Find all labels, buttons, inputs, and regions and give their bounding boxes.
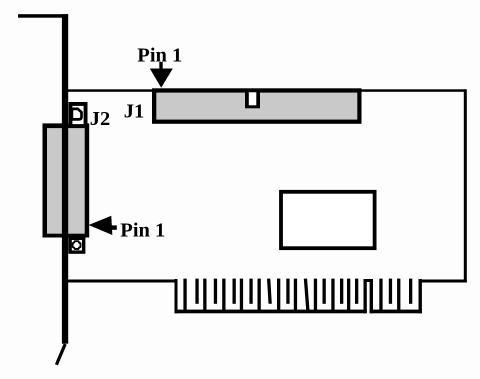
chip IC [281, 192, 375, 248]
J2 top screw retainer [69, 102, 88, 128]
card body outline [65, 89, 467, 282]
edge connector right segment [370, 279, 422, 314]
J1 keying notch [245, 89, 260, 108]
Pin 1 arrow (top, pointing down) [150, 62, 173, 88]
svg-text:J1: J1 [124, 101, 145, 123]
edge connector notch cap [364, 279, 374, 282]
connector J1 [152, 88, 362, 124]
J2 bottom screw retainer [68, 237, 85, 254]
svg-text:J2: J2 [90, 108, 111, 130]
bracket [18, 14, 68, 365]
connector J2 body [43, 123, 90, 237]
edge connector left segment [175, 279, 367, 314]
Pin 1 arrow (left, pointing left) [89, 216, 117, 235]
svg-text:Pin 1: Pin 1 [120, 220, 165, 242]
